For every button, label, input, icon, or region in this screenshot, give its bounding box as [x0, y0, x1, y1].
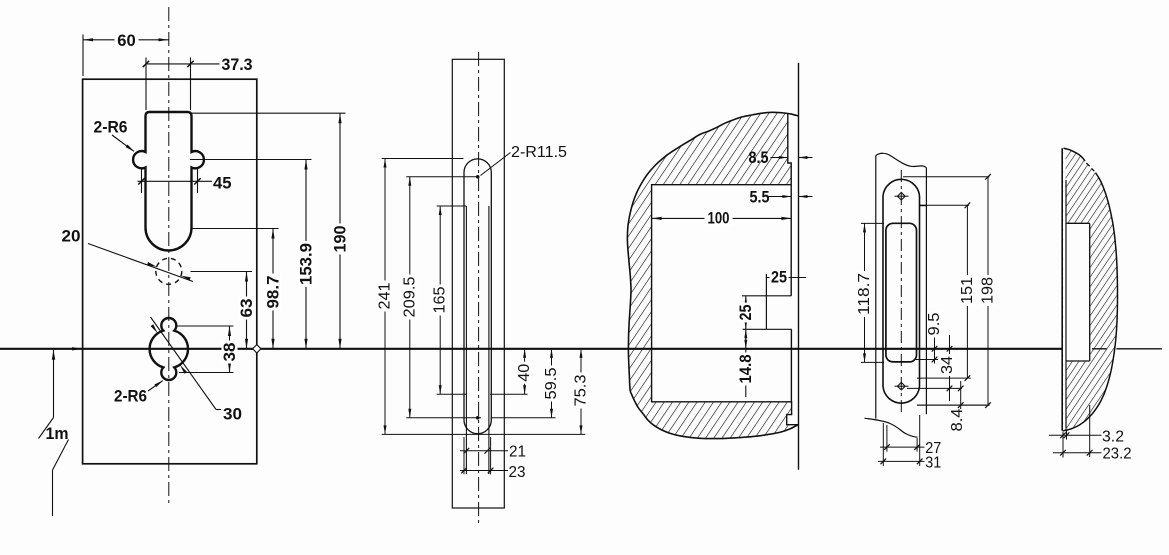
view4 strip edges	[875, 156, 877, 419]
svg-text:2-R11.5: 2-R11.5	[511, 144, 567, 161]
svg-text:20: 20	[62, 227, 81, 246]
view2 arc center marks	[476, 175, 480, 179]
view5 dim 3.2	[1062, 432, 1064, 458]
view5 outline upper solid	[1064, 148, 1086, 161]
svg-text:8.4: 8.4	[949, 408, 966, 431]
svg-text:60: 60	[117, 31, 136, 50]
svg-text:37.3: 37.3	[222, 55, 253, 74]
svg-text:31: 31	[925, 454, 941, 471]
view2 dim 21	[463, 437, 465, 474]
main horizontal centerline	[0, 348, 1062, 350]
view5 outline hidden dashes	[1086, 163, 1089, 166]
svg-text:2-R6: 2-R6	[94, 118, 128, 137]
view4 vertical dash-dot centerline	[900, 170, 902, 412]
svg-text:209.5: 209.5	[401, 276, 418, 317]
view2 dim 165	[437, 205, 466, 207]
view4 bottom break wave	[865, 418, 918, 437]
view1 dim 153.9	[190, 159, 312, 161]
svg-text:198: 198	[980, 277, 997, 304]
view1 keyhole slot	[133, 112, 204, 251]
svg-text:59.5: 59.5	[543, 367, 560, 399]
svg-text:151: 151	[959, 277, 976, 304]
view1 dim 63	[191, 271, 253, 273]
view4 top break wave	[876, 153, 927, 167]
view5 hatched profile section	[1063, 148, 1118, 431]
view2 dim 23	[460, 470, 508, 472]
svg-text:100: 100	[708, 209, 730, 227]
view1 junction diamond	[253, 345, 261, 353]
view3 cavity edges	[788, 113, 791, 295]
view5 notch outline	[1066, 223, 1090, 361]
view1 dim 45	[141, 169, 143, 193]
view2 dim 209.5	[406, 176, 476, 178]
svg-text:75.3: 75.3	[573, 374, 590, 406]
view3 reference line	[798, 63, 800, 470]
view4 screw hole bottom	[898, 382, 906, 390]
view3 dim 25 vertical	[745, 296, 747, 330]
view5 inner wall line	[1065, 180, 1067, 429]
svg-text:34: 34	[939, 356, 956, 374]
view4 faceplate outline	[883, 179, 926, 403]
view4 dim 118.7	[861, 222, 884, 224]
view2 dim 40	[490, 393, 528, 395]
view1 clover cutout 30	[150, 318, 188, 380]
svg-text:14.8: 14.8	[737, 355, 755, 384]
view1 dim 98.7	[192, 228, 279, 230]
svg-text:153.9: 153.9	[297, 243, 316, 285]
view2 inner slot lines	[465, 206, 467, 474]
view4 dim 198	[903, 176, 990, 178]
svg-text:45: 45	[213, 173, 232, 192]
view2 slot outline	[464, 159, 491, 434]
view2 outer rectangle	[452, 59, 504, 508]
view5 face line	[1061, 148, 1063, 431]
view3 freehand outline	[627, 112, 798, 438]
svg-text:118.7: 118.7	[856, 273, 873, 315]
view1 dashed circle 20	[156, 258, 182, 284]
view5 outline main	[1063, 173, 1117, 431]
view3 dim 100	[652, 217, 792, 219]
svg-text:9.5: 9.5	[926, 312, 943, 335]
view3 dim 14.8	[745, 329, 747, 397]
view1 leader 30	[151, 317, 217, 410]
svg-text:38: 38	[220, 343, 239, 362]
view1 floor reference 1m	[52, 350, 55, 360]
view4 dim 27	[886, 425, 888, 452]
svg-text:98.7: 98.7	[264, 276, 283, 309]
view2 dim 59.5	[491, 417, 556, 419]
view4 screw hole top	[898, 192, 906, 200]
view4 dim 8.4	[917, 404, 990, 406]
svg-text:165: 165	[432, 286, 449, 313]
view1 dim 60	[82, 35, 84, 77]
view1 vertical dash-dot centerline	[168, 7, 170, 503]
svg-text:25: 25	[737, 305, 755, 321]
view1 plate outline	[83, 79, 257, 464]
svg-text:40: 40	[516, 364, 533, 382]
view4 dim 9.5	[915, 359, 938, 361]
view4 dim 31	[882, 423, 884, 466]
view1 dim 190	[192, 112, 346, 114]
view4 slot	[886, 223, 917, 362]
svg-text:63: 63	[237, 299, 256, 318]
view5 dim 23.2	[1089, 405, 1091, 457]
svg-text:23: 23	[509, 464, 526, 481]
view1 dim 38	[178, 325, 234, 327]
svg-text:1m: 1m	[46, 424, 69, 443]
svg-text:241: 241	[377, 282, 394, 309]
svg-text:2-R6: 2-R6	[114, 387, 147, 406]
view4 dim 151	[920, 204, 969, 206]
view5 wall white strip	[1063, 150, 1066, 429]
view2 dim 75.3	[580, 349, 582, 435]
view3 hatched wall section	[627, 112, 798, 438]
svg-text:30: 30	[223, 405, 242, 424]
view2 vertical dash-dot centerline	[478, 52, 480, 525]
view3 dim 25 horizontal	[766, 277, 806, 279]
view3 pocket step edges	[742, 295, 791, 297]
svg-text:21: 21	[509, 444, 526, 461]
svg-text:25: 25	[771, 269, 787, 287]
view4 dim 34	[907, 387, 962, 389]
svg-text:8.5: 8.5	[749, 149, 769, 167]
view2 dim 241	[382, 158, 464, 160]
svg-text:190: 190	[331, 226, 350, 253]
svg-text:5.5: 5.5	[750, 189, 770, 207]
svg-text:23.2: 23.2	[1103, 446, 1132, 463]
svg-text:3.2: 3.2	[1102, 428, 1124, 445]
centerline arrow at plate edge	[72, 347, 82, 350]
view1 dim 37.3	[145, 58, 147, 111]
